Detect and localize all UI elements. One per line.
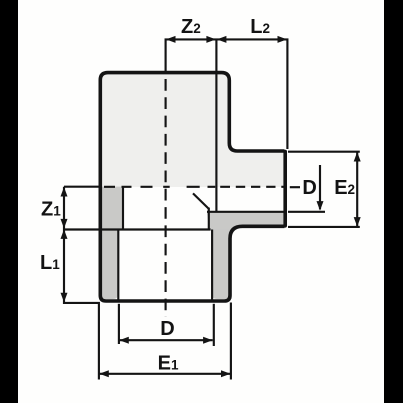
svg-text:D: D: [302, 177, 316, 199]
svg-text:D: D: [160, 318, 174, 340]
